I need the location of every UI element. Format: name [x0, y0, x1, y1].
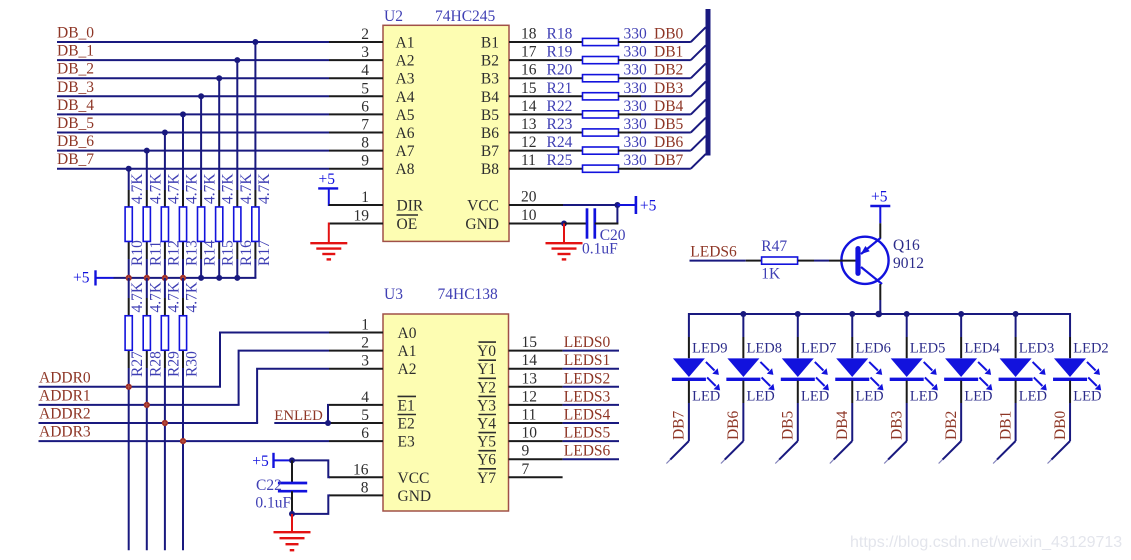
resistor R16 4.7K [234, 173, 255, 266]
svg-text:330: 330 [624, 26, 648, 43]
svg-text:3: 3 [361, 44, 369, 61]
LED diode LED2 [1053, 313, 1109, 405]
resistor R15 4.7K [216, 173, 237, 266]
svg-text:330: 330 [624, 62, 648, 79]
U2 pin 8 (A7) stub [329, 135, 415, 161]
svg-text:DB3: DB3 [654, 80, 684, 97]
svg-text:LEDS4: LEDS4 [564, 407, 611, 424]
junction LED rail [849, 311, 855, 317]
wire E1 to ENLED [327, 404, 329, 423]
wire net ADDR0 [39, 369, 222, 387]
svg-text:6: 6 [361, 98, 369, 115]
wire column R16 [236, 60, 238, 278]
resistor R20 330 [547, 62, 648, 82]
svg-text:LED3: LED3 [1019, 341, 1054, 357]
svg-text:Y3: Y3 [477, 397, 496, 414]
LED diode LED4 [944, 313, 1000, 405]
wire net DB_1 [57, 43, 329, 61]
off-sheet tail DB2 [939, 441, 962, 464]
svg-text:LED: LED [910, 389, 938, 405]
svg-text:https://blog.csdn.net/weixin_4: https://blog.csdn.net/weixin_43129713 [850, 534, 1122, 551]
svg-text:Y1: Y1 [477, 361, 496, 378]
U3 pin 3 (A2) stub [329, 353, 416, 379]
svg-text:R10: R10 [129, 240, 146, 266]
svg-text:R30: R30 [184, 351, 201, 377]
power +5 (U3) [252, 453, 292, 470]
svg-text:4.7K: 4.7K [256, 173, 273, 204]
svg-text:LED: LED [692, 389, 720, 405]
svg-text:Y5: Y5 [477, 434, 496, 451]
U2 pin 20 VCC stub [467, 189, 563, 215]
wire net DB_6 [57, 133, 329, 151]
resistor R28 4.7K [143, 281, 164, 377]
svg-text:+5: +5 [73, 270, 90, 287]
svg-text:R20: R20 [547, 62, 573, 79]
svg-text:GND: GND [398, 488, 432, 505]
junction LED rail [795, 311, 801, 317]
junction GND C20 [561, 221, 567, 227]
svg-text:B3: B3 [481, 71, 499, 88]
bus entry DB0 [691, 27, 706, 42]
bus entry DB6 [691, 136, 706, 151]
U2 pin 18 (B1) stub [481, 26, 583, 52]
wire LED supply rail [689, 313, 1070, 315]
junction rail R28 column [144, 275, 150, 281]
resistor R18 330 [547, 26, 648, 46]
svg-text:DB2: DB2 [943, 411, 960, 440]
svg-text:E3: E3 [398, 434, 415, 451]
svg-text:ADDR0: ADDR0 [39, 369, 91, 386]
svg-text:4.7K: 4.7K [147, 173, 164, 204]
svg-text:0.1uF: 0.1uF [255, 495, 291, 512]
wire LED6 cathode [851, 403, 853, 441]
svg-text:R29: R29 [165, 351, 182, 377]
LED diode LED9 [672, 313, 728, 405]
svg-text:12: 12 [522, 388, 538, 405]
U2 pin 6 (A5) stub [329, 98, 415, 124]
U3 pin 9 (Y6) stub [477, 443, 563, 469]
svg-text:LED: LED [1073, 389, 1101, 405]
svg-text:DB4: DB4 [654, 98, 684, 115]
wire ADDR0 riser to U3 A0 [220, 333, 329, 387]
svg-text:330: 330 [624, 98, 648, 115]
svg-text:16: 16 [521, 62, 537, 79]
resistor R21 330 [547, 80, 648, 100]
svg-text:DB2: DB2 [654, 62, 683, 79]
svg-text:LEDS5: LEDS5 [564, 425, 611, 442]
svg-text:A2: A2 [396, 53, 415, 70]
resistor R19 330 [547, 44, 648, 64]
junction ADDR1 [144, 402, 150, 408]
svg-text:1: 1 [361, 317, 369, 334]
svg-text:R24: R24 [547, 134, 573, 151]
svg-text:15: 15 [522, 334, 538, 351]
junction rail R29 column [162, 275, 168, 281]
svg-text:B8: B8 [481, 161, 499, 178]
U3 pin 8 GND stub [329, 479, 431, 505]
U3 pin 15 (Y0) stub [477, 334, 563, 360]
svg-text:E1: E1 [398, 397, 415, 414]
svg-text:DB5: DB5 [654, 116, 684, 133]
ground (U2 GND) [546, 224, 583, 260]
junction DB_3 [198, 93, 204, 99]
svg-text:1K: 1K [761, 266, 781, 283]
svg-text:1: 1 [361, 189, 369, 206]
U2 pin 1 DIR stub [329, 189, 424, 215]
wire net LEDS6 [563, 443, 619, 460]
svg-text:DB0: DB0 [654, 26, 684, 43]
junction DB_5 [162, 130, 168, 136]
junction rail R27 column [126, 275, 132, 281]
U2 pin 11 (B8) stub [481, 152, 583, 178]
svg-text:A0: A0 [398, 325, 417, 342]
wire net LEDS4 [563, 407, 619, 424]
wire net LEDS1 [563, 352, 619, 369]
wire LED3 cathode [1015, 403, 1017, 441]
power +5 (U2 DIR) [318, 171, 338, 206]
bus entry DB4 [691, 100, 706, 115]
svg-text:4.7K: 4.7K [129, 281, 146, 312]
wire net DB4 [641, 98, 691, 115]
resistor R17 4.7K [252, 173, 273, 266]
wire column R17 [254, 42, 256, 278]
junction rail R16 column [234, 275, 240, 281]
svg-text:19: 19 [354, 208, 370, 225]
U2 pin 3 (A2) stub [329, 44, 414, 70]
svg-text:VCC: VCC [467, 198, 499, 215]
junction DB_4 [180, 111, 186, 117]
wire net DB7 [641, 152, 691, 169]
resistor R10 4.7K [125, 173, 146, 266]
power +5 (U2 VCC) [617, 196, 656, 215]
svg-text:C22: C22 [256, 477, 282, 494]
svg-text:DB_6: DB_6 [57, 133, 94, 150]
svg-text:DB0: DB0 [1052, 410, 1069, 440]
U3 pin 13 (Y2) stub [477, 370, 563, 396]
svg-text:Q16: Q16 [893, 237, 920, 254]
bus entry DB1 [691, 45, 706, 60]
U3 pin 11 (Y4) stub [477, 407, 563, 433]
junction rail R15 column [216, 275, 222, 281]
svg-text:DB3: DB3 [889, 410, 906, 440]
svg-text:14: 14 [521, 98, 537, 115]
junction C22 bottom [289, 511, 295, 517]
svg-text:4.7K: 4.7K [165, 281, 182, 312]
svg-text:14: 14 [522, 352, 538, 369]
svg-text:R14: R14 [202, 240, 219, 266]
power +5 rail (pull-ups) [73, 270, 256, 287]
svg-text:LED5: LED5 [910, 341, 945, 357]
U2 pin 4 (A3) stub [329, 62, 415, 88]
wire LED7 cathode [797, 403, 799, 441]
wire column R12 [164, 133, 166, 278]
resistor R23 330 [547, 116, 648, 136]
wire column R10 [128, 169, 130, 278]
svg-text:ADDR1: ADDR1 [39, 387, 91, 404]
wire net DB_7 [57, 151, 329, 169]
svg-text:LED4: LED4 [964, 341, 1000, 357]
resistor R25 330 [547, 152, 648, 172]
wire LED2 cathode [1069, 403, 1071, 441]
svg-text:R23: R23 [547, 116, 573, 133]
wire net DB1 [641, 44, 691, 61]
U2 pin 13 (B6) stub [481, 116, 583, 142]
junction ADDR0 [126, 384, 132, 390]
svg-text:5: 5 [361, 407, 369, 424]
junction rail R14 column [198, 275, 204, 281]
LED diode LED7 [781, 313, 837, 405]
wire column R15 [218, 78, 220, 278]
wire net DB2 [641, 62, 691, 79]
wire net DB_3 [57, 79, 329, 97]
svg-text:R13: R13 [184, 240, 201, 266]
svg-text:DB_0: DB_0 [57, 25, 94, 42]
wire column R27 [128, 278, 130, 550]
U2 pin 2 (A1) stub [329, 26, 414, 52]
svg-text:11: 11 [522, 407, 537, 424]
svg-text:7: 7 [522, 461, 530, 478]
U3 pin 7 (Y7) stub [477, 461, 563, 487]
svg-text:4.7K: 4.7K [147, 281, 164, 312]
svg-text:LEDS0: LEDS0 [564, 334, 611, 351]
U2 pin 12 (B7) stub [481, 134, 583, 160]
LED diode LED5 [890, 313, 946, 405]
svg-text:4.7K: 4.7K [165, 173, 182, 204]
svg-text:4.7K: 4.7K [220, 173, 237, 204]
U2 pin 16 (B3) stub [481, 62, 583, 88]
svg-text:Y7: Y7 [477, 470, 496, 487]
svg-text:330: 330 [624, 44, 648, 61]
resistor R47 1K [746, 238, 814, 283]
svg-text:U3: U3 [384, 286, 403, 303]
svg-text:13: 13 [522, 370, 538, 387]
svg-text:R15: R15 [220, 240, 237, 266]
wire column R29 [164, 278, 166, 550]
svg-text:DB7: DB7 [654, 152, 684, 169]
junction ADDR2 [162, 420, 168, 426]
U2 pin 15 (B4) stub [481, 80, 583, 106]
svg-text:A3: A3 [396, 71, 415, 88]
junction LED rail [958, 311, 964, 317]
svg-text:GND: GND [465, 216, 499, 233]
U3 pin 4 (E1) stub [329, 389, 416, 415]
junction DB_1 [234, 57, 240, 63]
svg-text:330: 330 [624, 152, 648, 169]
svg-text:DIR: DIR [397, 198, 424, 215]
bus entry DB5 [691, 118, 706, 133]
svg-text:R12: R12 [165, 240, 182, 266]
U2 pin 7 (A6) stub [329, 117, 415, 143]
svg-text:11: 11 [521, 152, 536, 169]
net LEDS6 wire [690, 244, 746, 261]
wire column R11 [146, 151, 148, 278]
junction C22 top [289, 457, 295, 463]
bus (data bus vertical) [706, 9, 711, 156]
svg-text:9: 9 [361, 153, 369, 170]
svg-text:0.1uF: 0.1uF [582, 241, 618, 258]
U3 pin 14 (Y1) stub [477, 352, 563, 378]
resistor R11 4.7K [143, 173, 164, 266]
svg-text:U2: U2 [384, 8, 403, 25]
wire VCC to +5 [563, 205, 617, 224]
ground (U3 GND) [274, 514, 311, 550]
svg-text:DB_3: DB_3 [57, 79, 94, 96]
junction LED rail [904, 311, 910, 317]
U3 pin 16 VCC stub [329, 461, 429, 487]
svg-text:DB4: DB4 [834, 410, 851, 440]
U2 pin 5 (A4) stub [329, 80, 415, 106]
svg-text:Y0: Y0 [477, 343, 496, 360]
svg-text:DB_4: DB_4 [57, 97, 94, 114]
LED diode LED8 [726, 313, 782, 405]
resistor R27 4.7K [125, 281, 146, 377]
svg-text:LED: LED [1019, 389, 1047, 405]
junction ADDR3 [180, 438, 186, 444]
U2 pin 9 (A8) stub [329, 153, 415, 179]
svg-text:74HC245: 74HC245 [435, 8, 496, 25]
svg-text:3: 3 [361, 353, 369, 370]
wire net DB5 [641, 116, 691, 133]
off-sheet tail DB5 [775, 441, 798, 464]
svg-text:R18: R18 [547, 26, 573, 43]
IC U3 74HC138 body [383, 314, 509, 511]
wire +5 to VCC [292, 460, 330, 477]
svg-text:B4: B4 [481, 89, 499, 106]
svg-text:A1: A1 [398, 343, 417, 360]
wire column R14 [200, 96, 202, 278]
svg-text:4.7K: 4.7K [184, 173, 201, 204]
U2 pin 19 OE stub [329, 208, 418, 234]
LED diode LED6 [835, 313, 891, 405]
svg-text:LED: LED [855, 389, 883, 405]
ground (U2 OE) [310, 223, 347, 260]
svg-text:DB5: DB5 [780, 410, 797, 440]
svg-text:LED: LED [964, 389, 992, 405]
svg-text:R16: R16 [238, 240, 255, 266]
svg-text:DB_7: DB_7 [57, 151, 94, 168]
wire ADDR1 riser to U3 A1 [239, 351, 329, 405]
svg-text:ADDR2: ADDR2 [39, 406, 91, 423]
svg-text:Y6: Y6 [477, 452, 496, 469]
off-sheet tail DB4 [830, 441, 852, 464]
svg-text:LED: LED [801, 389, 829, 405]
capacitor C22 0.1uF [255, 460, 307, 514]
IC U2 74HC245 body [383, 25, 509, 241]
junction rail R30 column [180, 275, 186, 281]
svg-text:OE: OE [397, 216, 418, 233]
junction ENLED [325, 420, 331, 426]
svg-text:DB7: DB7 [671, 410, 688, 440]
bus entry DB3 [691, 82, 706, 97]
off-sheet tail DB6 [721, 441, 743, 464]
svg-text:VCC: VCC [398, 470, 430, 487]
svg-text:LEDS6: LEDS6 [690, 244, 737, 261]
svg-text:LEDS6: LEDS6 [564, 443, 611, 460]
svg-text:DB_2: DB_2 [57, 61, 94, 78]
wire ADDR2 riser to U3 A2 [257, 369, 329, 423]
wire net ADDR2 [39, 406, 259, 424]
svg-text:4.7K: 4.7K [184, 281, 201, 312]
resistor R12 4.7K [161, 173, 182, 266]
junction DB_6 [144, 148, 150, 154]
junction VCC [614, 202, 620, 208]
svg-text:A6: A6 [396, 125, 415, 142]
svg-text:DB6: DB6 [725, 410, 742, 440]
U2 pin 14 (B5) stub [481, 98, 583, 124]
svg-text:ENLED: ENLED [274, 408, 323, 424]
svg-text:E2: E2 [398, 416, 415, 433]
svg-text:A7: A7 [396, 143, 415, 160]
svg-text:18: 18 [521, 26, 537, 43]
U3 pin 5 (E2) stub [329, 407, 416, 433]
svg-text:B2: B2 [481, 53, 499, 70]
U2 pin 17 (B2) stub [481, 44, 583, 70]
svg-text:DB1: DB1 [654, 44, 683, 61]
U3 pin 10 (Y5) stub [477, 425, 563, 451]
svg-text:R17: R17 [256, 240, 273, 266]
bus entry DB2 [691, 63, 706, 78]
svg-text:7: 7 [361, 117, 369, 134]
wire net DB_5 [57, 115, 329, 133]
svg-text:4: 4 [361, 62, 369, 79]
resistor R30 4.7K [179, 281, 200, 377]
svg-text:5: 5 [361, 80, 369, 97]
wire net LEDS5 [563, 425, 619, 442]
svg-text:B1: B1 [481, 35, 499, 52]
svg-text:R11: R11 [147, 241, 164, 266]
wire LED4 cathode [960, 403, 962, 441]
svg-text:330: 330 [624, 116, 648, 133]
svg-text:A5: A5 [396, 107, 415, 124]
U3 pin 1 (A0) stub [329, 317, 417, 343]
svg-text:4.7K: 4.7K [202, 173, 219, 204]
svg-text:B5: B5 [481, 107, 499, 124]
wire C22 to GND pin [292, 495, 330, 514]
junction LED rail [1013, 311, 1019, 317]
wire net DB0 [641, 26, 691, 43]
svg-text:A8: A8 [396, 161, 415, 178]
svg-text:R47: R47 [761, 238, 787, 255]
svg-text:4.7K: 4.7K [238, 173, 255, 204]
resistor R29 4.7K [161, 281, 182, 377]
wire net LEDS2 [563, 370, 619, 387]
power +5 (Q16) [870, 189, 890, 224]
wire column R28 [146, 278, 148, 550]
svg-text:2: 2 [361, 335, 369, 352]
svg-text:R27: R27 [129, 351, 146, 377]
svg-text:LEDS2: LEDS2 [564, 370, 611, 387]
wire net DB6 [641, 134, 691, 151]
net ENLED wire [274, 408, 328, 424]
svg-text:15: 15 [521, 80, 537, 97]
svg-text:6: 6 [361, 425, 369, 442]
svg-text:LED8: LED8 [747, 341, 782, 357]
U2 pin 10 GND stub [465, 207, 564, 233]
junction Q16 collector rail [875, 311, 882, 318]
svg-text:2: 2 [361, 26, 369, 43]
svg-text:+5: +5 [252, 453, 269, 470]
svg-text:R28: R28 [147, 351, 164, 377]
svg-text:R19: R19 [547, 44, 573, 61]
resistor R13 4.7K [179, 173, 200, 266]
wire R47 to base [814, 260, 829, 262]
svg-text:LED2: LED2 [1073, 341, 1108, 357]
svg-text:R22: R22 [547, 98, 573, 115]
capacitor C20 0.1uF [564, 208, 626, 257]
wire net LEDS0 [563, 334, 619, 351]
resistor R14 4.7K [198, 173, 219, 266]
svg-text:9012: 9012 [893, 255, 924, 272]
